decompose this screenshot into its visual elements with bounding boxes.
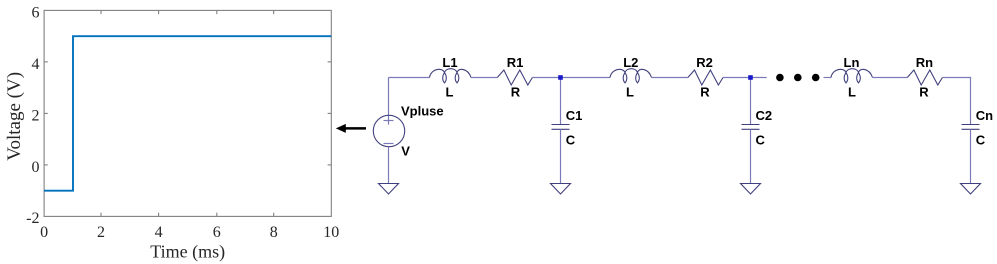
svg-text:Cn: Cn xyxy=(976,108,993,123)
wire Cn to ground xyxy=(970,129,972,183)
svg-text:Time (ms): Time (ms) xyxy=(150,242,225,263)
svg-text:Voltage (V): Voltage (V) xyxy=(4,72,25,161)
step waveform trace xyxy=(44,36,331,190)
wire source bottom lead to ground xyxy=(388,147,390,184)
svg-text:8: 8 xyxy=(270,224,278,241)
wire R1 to L2 xyxy=(532,77,610,79)
svg-text:2: 2 xyxy=(32,108,40,125)
capacitor C1 xyxy=(552,125,570,130)
capacitor Cn xyxy=(962,125,980,130)
capacitor C2 xyxy=(742,125,760,130)
wire source top lead xyxy=(388,78,390,116)
resistor R1 xyxy=(497,70,532,85)
svg-text:R: R xyxy=(700,85,710,100)
resistor Rn xyxy=(907,70,942,85)
wire L1 to R1 xyxy=(471,77,497,79)
inductor Ln xyxy=(831,69,873,83)
inductor L1 xyxy=(430,69,472,83)
ellipsis dot 1 xyxy=(776,74,784,82)
wire R2 to dots xyxy=(723,77,767,79)
ground under Cn xyxy=(961,184,981,195)
y-axis ticks left xyxy=(44,62,48,165)
svg-text:R2: R2 xyxy=(696,55,713,70)
svg-text:R: R xyxy=(919,85,929,100)
y tick labels xyxy=(26,5,39,227)
svg-text:Vpluse: Vpluse xyxy=(401,103,444,118)
node junction 2 xyxy=(748,75,753,80)
svg-text:V: V xyxy=(401,144,410,159)
voltage source minus sign xyxy=(384,143,394,145)
ground under C2 xyxy=(741,184,761,195)
svg-text:L: L xyxy=(446,85,454,100)
svg-text:L1: L1 xyxy=(442,55,457,70)
ground under C1 xyxy=(551,184,571,195)
voltage source plus sign xyxy=(384,116,394,125)
ellipsis dot 3 xyxy=(812,74,820,82)
arrow xyxy=(336,124,366,133)
y-axis ticks right xyxy=(328,62,332,165)
svg-text:-2: -2 xyxy=(26,210,39,227)
resistor R2 xyxy=(688,70,723,85)
wire node 2 down to C2 xyxy=(750,78,752,125)
wire corner down to Cn xyxy=(970,78,972,125)
x tick labels xyxy=(40,224,339,241)
wire L2 to R2 xyxy=(652,77,688,79)
wire C1 to ground xyxy=(560,129,562,183)
svg-text:Ln: Ln xyxy=(844,55,860,70)
x-axis ticks bottom xyxy=(101,213,274,217)
wire dots to Ln xyxy=(824,77,832,79)
svg-text:L: L xyxy=(626,85,634,100)
wire C2 to ground xyxy=(750,129,752,183)
svg-text:C2: C2 xyxy=(756,108,773,123)
svg-text:0: 0 xyxy=(32,159,40,176)
wire Rn to corner xyxy=(942,77,971,79)
wire Ln to Rn xyxy=(873,77,908,79)
x-axis ticks top xyxy=(101,10,274,14)
svg-text:C: C xyxy=(566,133,576,148)
wire source to L1 xyxy=(389,77,430,79)
svg-text:2: 2 xyxy=(97,224,105,241)
svg-text:L: L xyxy=(848,85,856,100)
ground under source xyxy=(379,184,399,195)
svg-text:4: 4 xyxy=(32,56,40,73)
svg-text:C1: C1 xyxy=(566,108,583,123)
inductor L2 xyxy=(610,69,652,83)
svg-text:R1: R1 xyxy=(507,55,524,70)
svg-text:C: C xyxy=(756,133,766,148)
svg-text:4: 4 xyxy=(155,224,163,241)
node junction 1 xyxy=(558,75,563,80)
plot axes box xyxy=(44,10,331,216)
svg-text:C: C xyxy=(976,133,986,148)
svg-text:6: 6 xyxy=(213,224,221,241)
ellipsis dot 2 xyxy=(794,74,802,82)
voltage source Vpluse circle xyxy=(373,115,404,146)
svg-text:6: 6 xyxy=(32,5,40,22)
wire node 1 down to C1 xyxy=(560,78,562,125)
svg-text:10: 10 xyxy=(323,224,339,241)
svg-text:R: R xyxy=(511,85,521,100)
svg-text:Rn: Rn xyxy=(916,55,933,70)
svg-text:0: 0 xyxy=(40,224,48,241)
svg-text:L2: L2 xyxy=(623,55,638,70)
